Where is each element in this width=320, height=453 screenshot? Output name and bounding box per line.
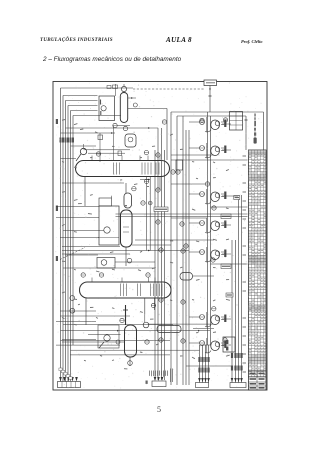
label box x154 y207 <box>154 207 168 212</box>
wire y324 to unit g <box>148 323 213 325</box>
instrument circle on y342 line <box>116 340 120 344</box>
bottom trunk termination box x195 <box>198 378 201 382</box>
equipment box B1 top-left <box>99 96 115 121</box>
bottom-right pipe terminations <box>231 378 234 382</box>
condenser unit E7 right column <box>189 338 226 353</box>
drum D2 top nozzles <box>91 278 93 283</box>
instrument bubble x173 <box>171 170 175 174</box>
wire V2 top feed (dark) <box>125 305 127 325</box>
wire V2 bottom outlet <box>129 357 131 366</box>
vessel V0 vertical drum top-left <box>120 93 127 123</box>
wire D2 bottom outlet left <box>85 298 87 325</box>
exchanger E0 circle <box>128 137 133 142</box>
tiny tag above D1 <box>118 151 122 156</box>
exchanger E10 small horizontal <box>157 326 181 333</box>
drum D2 internal tray line clusters <box>120 284 122 297</box>
arrow y133 <box>111 132 113 134</box>
pump P1 circle <box>104 227 110 233</box>
wire left rack vertical 4 <box>67 106 69 384</box>
header left: course title <box>40 38 113 43</box>
pump P0 circle <box>80 148 86 154</box>
wire left rack vertical 3 <box>65 101 67 384</box>
label box on top border <box>204 80 217 86</box>
wire left rack vertical 2 <box>62 96 64 384</box>
scan noise speckles (decorative) <box>55 82 266 388</box>
wire D2 bottom outlet mid2 <box>154 298 156 310</box>
legend line-list table right strip <box>248 150 266 390</box>
wire V1 top feed <box>125 183 127 193</box>
exchanger E0 body <box>125 134 136 147</box>
instrument bubble x146 y181 <box>144 179 148 183</box>
left rack line-number tags <box>60 138 62 143</box>
wire vertical x167 down <box>166 109 168 161</box>
vessel V2 vertical drum bottom <box>125 325 137 357</box>
instrument bubble above V2 <box>120 318 124 322</box>
pump box P1b mid-left <box>97 258 115 269</box>
instrument circle below V1 <box>127 258 132 263</box>
wire P0 slant suction <box>76 154 81 161</box>
wire top header line 2 <box>63 95 98 97</box>
page number <box>157 405 161 414</box>
arrow on top box line <box>209 89 211 91</box>
drum D2 horizontal vessel lower <box>80 282 172 298</box>
tick marks inside B1 <box>100 100 102 105</box>
wire boundary B right drop <box>245 116 247 150</box>
instrument bubble above D1 <box>96 152 100 156</box>
wire trunk vertical x183 <box>182 116 184 385</box>
wire x146 drum1 to y250 <box>146 177 148 251</box>
bottom-left label box row <box>58 382 81 388</box>
wire y133 <box>61 132 116 134</box>
wire left rack vertical 6 <box>72 116 74 346</box>
wire section boundary vertical B <box>176 116 178 385</box>
label box x221 y214 <box>221 214 231 219</box>
condenser unit E6 right column <box>189 312 226 327</box>
tiny label box above B1 <box>107 86 111 89</box>
instrument circle right of V0 <box>133 103 137 107</box>
label box x233 y195 <box>234 196 240 200</box>
instrument circle below V0 <box>123 126 127 130</box>
wire right trunk vertical x238 <box>238 195 240 383</box>
wire x100 down <box>99 133 101 162</box>
instrument bubble x153 y305 <box>151 303 155 307</box>
drum D1 top nozzles <box>91 156 93 161</box>
tick on top box line <box>209 95 212 97</box>
table column dividers <box>251 150 253 377</box>
valve tick on V2 feed <box>123 309 128 311</box>
wire trunk vertical x158 <box>157 128 159 380</box>
wire section boundary vertical A <box>170 112 172 385</box>
header center: AULA 8 <box>166 36 192 44</box>
exchanger E9 small horizontal <box>180 273 193 281</box>
V1 internal mark <box>123 226 129 228</box>
instrument bubble x150 y203 <box>148 201 152 205</box>
line-number tags on center-bottom trunk lines <box>198 357 200 362</box>
wire down to pump P3 <box>144 314 146 322</box>
small legend table top-right <box>230 112 243 131</box>
wire section boundary top A <box>171 111 264 113</box>
caption Fig 12.1 vertical (smudge) <box>254 113 257 144</box>
condenser unit E4 right column <box>189 218 226 233</box>
instrument bubble above D2 c <box>146 273 150 277</box>
tiny annotation dashes along lines (decorative texture) <box>62 120 230 369</box>
wire V0 outlet right <box>128 108 167 110</box>
wire diagonal dashed <box>60 248 85 260</box>
wire trunk vertical x186 <box>185 130 187 385</box>
flow arrow y250 <box>148 250 150 252</box>
wire top dashed line <box>133 88 204 90</box>
wire D2 bottom outlet mid <box>144 298 146 314</box>
subtitle <box>43 56 181 63</box>
wire y342 into V2 <box>62 341 125 343</box>
label box x226 y293 <box>226 293 233 297</box>
wire V0 top nozzle <box>123 84 125 86</box>
instrument circle below V2 <box>128 361 133 366</box>
arrow below D1 <box>148 179 150 181</box>
bottom-center pipe terminations <box>154 377 157 381</box>
wire P2 slant <box>99 342 104 348</box>
wire V1 bottom outlet <box>125 247 127 266</box>
wire x113 down <box>113 126 115 161</box>
flow arrow from V0 <box>131 97 133 99</box>
label box x223 y337 with ticks <box>223 337 235 352</box>
wire top header line 1 <box>61 87 134 89</box>
title block bold text smudges <box>250 373 256 375</box>
wire into B1 top <box>114 84 116 96</box>
pump circle inside B1 <box>101 106 106 111</box>
header right: Prof. Clelio <box>241 39 263 44</box>
table rows <box>248 152 266 154</box>
ticks on left frame <box>56 206 58 212</box>
wire D1 bottom outlet right <box>159 177 161 191</box>
tiny label box above B1 b <box>113 85 118 89</box>
wire y150 <box>84 149 131 151</box>
condenser unit E3 right column <box>189 189 226 204</box>
pump box P1 enclosure <box>99 206 119 245</box>
table title block bottom <box>248 370 266 372</box>
wire trunk vertical x161 <box>161 128 163 380</box>
drum D1 internal tray line clusters <box>113 163 115 175</box>
tiny tags on rack lines above bottom <box>59 368 62 371</box>
wire y128 <box>66 127 159 129</box>
line-number tags on right trunk lines <box>231 353 233 358</box>
wire right trunk vertical x235 <box>235 240 237 383</box>
wire top header line 3 <box>66 100 98 102</box>
vessel V1b vertical column mid-left <box>121 210 133 247</box>
tick on boundary B drop <box>245 119 248 121</box>
condenser unit E1 right column <box>189 117 226 132</box>
instrument circle on rack y311 <box>70 308 75 313</box>
wire trunk vertical x207 <box>207 112 209 345</box>
label box x221 y264 <box>221 264 231 269</box>
wire from top box down <box>209 86 211 113</box>
table cell text smudges <box>249 153 250 155</box>
wire horizontal mesh lines <box>71 145 97 147</box>
instrument bubble x143 y203 <box>141 201 145 205</box>
drum D1 horizontal vessel upper <box>76 161 170 177</box>
wire trunk jog down to bottom box <box>199 345 201 383</box>
instrument bubble x178 <box>176 170 180 174</box>
wire top header line 5 <box>71 110 98 112</box>
instrument circle on rack y298 <box>70 296 75 301</box>
vessel V1a small upper <box>124 193 132 208</box>
wire section boundary top B <box>177 115 246 117</box>
wire y153 <box>88 152 125 154</box>
wire right trunk vertical x232 <box>231 240 233 383</box>
wire trunk vertical x210 <box>210 116 212 345</box>
instrument bubble x164 y122 <box>162 120 166 124</box>
pump P2 circle <box>104 335 110 341</box>
condenser unit E2 right column <box>189 143 226 158</box>
wire top header line 4 <box>68 105 98 107</box>
instrument bubble above D2 <box>81 273 85 277</box>
wire trunk vertical x189 <box>188 130 190 385</box>
table section header bands <box>248 150 266 156</box>
instrument bubble x115 y125 <box>113 123 117 127</box>
wire from bubble <box>117 125 130 127</box>
diagram outer border frame <box>53 82 267 391</box>
pump P3 circle <box>143 322 149 328</box>
wire D1 bottom outlet left <box>84 177 86 207</box>
label box above P1 <box>99 198 112 206</box>
wire below D1 right <box>140 179 150 181</box>
wire x150 drum1 to y250 <box>149 177 151 251</box>
instrument bubble right of V2 <box>145 340 149 344</box>
pump box P2 enclosure <box>98 325 119 348</box>
wire y158 <box>61 158 77 160</box>
circle on V0 top <box>121 86 126 91</box>
tiny line labels left of table <box>243 155 247 157</box>
instrument bubble above D1 c <box>144 150 148 154</box>
valve box x176 y160 <box>176 160 183 170</box>
wire right trunk vertical x241 <box>241 195 243 383</box>
wire left rack vertical 1 <box>60 88 62 383</box>
instrument bubble right of V1 top <box>132 187 136 191</box>
pump P1b circle <box>101 260 107 266</box>
wire trunk vertical x155 <box>154 150 156 380</box>
wire trunk vertical x164 <box>164 150 166 380</box>
condenser unit E5 right column <box>189 247 226 262</box>
valve box x98 y135 <box>98 135 103 140</box>
wire boundary A right drop <box>263 112 265 150</box>
instrument bubble mid mesh <box>156 153 160 157</box>
wire top header line 6 <box>73 115 121 117</box>
wire left rack vertical 5 <box>70 111 72 384</box>
instrument bubble above D2 b <box>99 273 103 277</box>
notes block: rows of tiny vertical strokes <box>149 371 151 376</box>
bottom-left pipe terminations with label boxes <box>59 377 62 382</box>
